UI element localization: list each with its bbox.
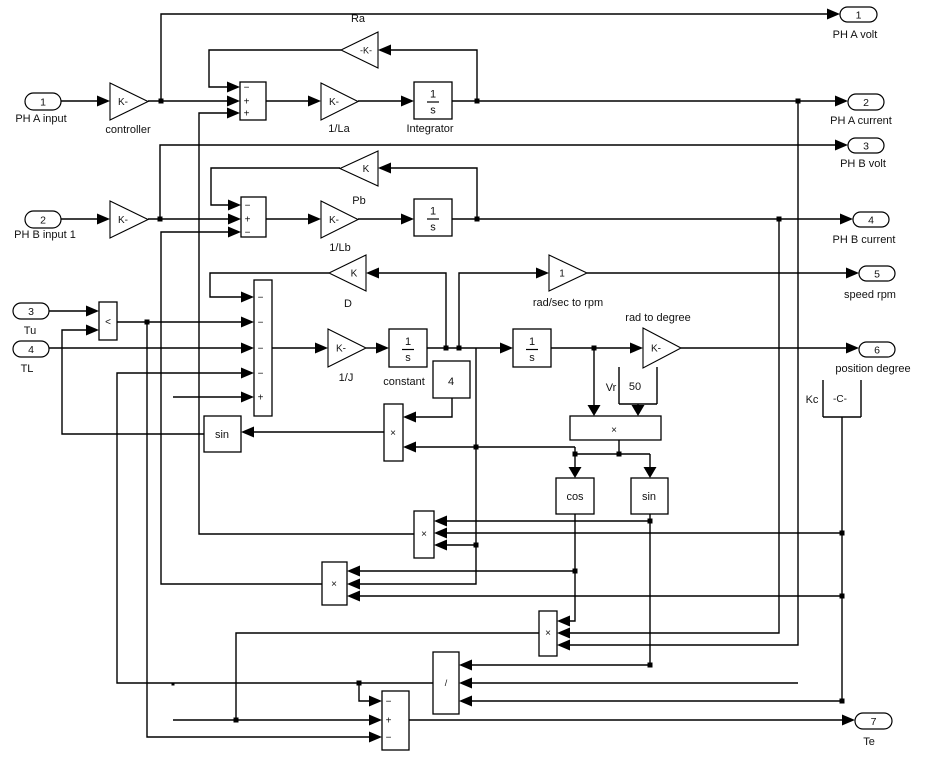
wire PH B volt line xyxy=(160,145,835,219)
svg-text:2: 2 xyxy=(40,214,46,226)
wire divide out to torque sum xyxy=(117,373,433,683)
svg-text:50: 50 xyxy=(629,381,641,393)
svg-text:×: × xyxy=(421,529,427,540)
svg-text:PH B volt: PH B volt xyxy=(840,158,886,170)
svg-text:+: + xyxy=(244,97,250,108)
svg-text:D: D xyxy=(344,298,352,310)
svg-text:Kc: Kc xyxy=(806,394,819,406)
svg-text:rad/sec to rpm: rad/sec to rpm xyxy=(533,297,603,309)
wire lt out to torque sum xyxy=(117,321,241,323)
svg-text:<: < xyxy=(105,317,111,328)
wire PH A volt line xyxy=(161,14,827,101)
wire TL to torque sum xyxy=(49,347,241,349)
svg-text:-C-: -C- xyxy=(833,394,847,405)
svg-text:position degree: position degree xyxy=(835,363,910,375)
trig block sin right xyxy=(631,478,668,514)
input port 1 PH A input xyxy=(25,93,61,110)
integrator A (1/s) xyxy=(414,82,452,119)
wire Kc branch to P1 in2 xyxy=(447,532,842,534)
svg-text:5: 5 xyxy=(874,268,880,280)
svg-text:1: 1 xyxy=(856,9,862,21)
svg-text:K-: K- xyxy=(336,344,346,355)
svg-text:+: + xyxy=(258,393,264,404)
gain 1/Lb (K-) xyxy=(321,201,358,238)
relational operator block (<) xyxy=(99,302,117,340)
svg-text:controller: controller xyxy=(105,124,151,136)
wire const4 to P2 xyxy=(416,398,452,417)
wire sumA to 1/La xyxy=(266,100,308,102)
sum block torque (5 inputs) xyxy=(254,280,272,416)
wire in2 to controllerB xyxy=(61,218,97,220)
gain controller B (K-) xyxy=(110,201,148,238)
wire sin out xyxy=(649,514,651,665)
gain Pb (K) flipped xyxy=(340,151,378,186)
svg-text:K-: K- xyxy=(118,97,128,108)
svg-text:1: 1 xyxy=(559,269,565,280)
wire Vr to product xyxy=(637,404,639,406)
wire D out to torque sum xyxy=(210,273,329,297)
svg-text:sin: sin xyxy=(642,491,656,503)
svg-text:×: × xyxy=(545,628,551,639)
constant block Kc = -C- (open top) xyxy=(822,380,824,417)
svg-text:speed rpm: speed rpm xyxy=(844,289,896,301)
svg-text:constant: constant xyxy=(383,376,425,388)
svg-text:1: 1 xyxy=(40,96,46,108)
svg-text:×: × xyxy=(611,425,617,436)
svg-text:Vr: Vr xyxy=(606,382,617,394)
svg-text:PH A input: PH A input xyxy=(15,113,66,125)
output port 2 PH A current xyxy=(848,94,884,110)
gain rad/sec to rpm (1) xyxy=(549,255,587,291)
svg-text:−: − xyxy=(258,318,264,329)
divide block (flipped) xyxy=(433,652,459,714)
wire lt branch to Te sum input3 xyxy=(147,322,369,737)
wire ia branch down x798 xyxy=(570,101,798,645)
gain controller (K-) xyxy=(110,83,148,120)
svg-text:Integrator: Integrator xyxy=(406,123,453,135)
integrator position (1/s) xyxy=(513,329,551,367)
wire D feedback xyxy=(379,273,446,348)
svg-text:1/La: 1/La xyxy=(328,123,350,135)
wire Kc branch to PL in3 xyxy=(360,595,842,597)
svg-text:+: + xyxy=(386,716,392,727)
wire in3 to lt xyxy=(49,310,86,312)
svg-text:7: 7 xyxy=(871,716,877,728)
svg-text:4: 4 xyxy=(868,214,874,226)
svg-text:1/J: 1/J xyxy=(339,372,354,384)
wire Ra feedback xyxy=(391,50,477,101)
wire Kc out vertical xyxy=(841,417,843,701)
svg-text:×: × xyxy=(390,428,396,439)
trig block sin left (flipped) xyxy=(204,416,241,452)
wire rpm gain to out5 xyxy=(587,272,846,274)
wire ib branch down x779 xyxy=(570,219,779,633)
wire Pb feedback xyxy=(391,168,477,219)
svg-text:−: − xyxy=(245,228,251,239)
output port 4 PH B current xyxy=(853,212,889,227)
wire omega line xyxy=(427,347,500,349)
svg-text:rad to degree: rad to degree xyxy=(625,312,690,324)
svg-text:3: 3 xyxy=(28,306,34,318)
wire P1 out to sumA xyxy=(199,113,414,534)
gain rad to degree (K-) xyxy=(643,328,681,368)
product block P2 (4x, flipped) xyxy=(384,404,403,461)
svg-text:1/Lb: 1/Lb xyxy=(329,242,350,254)
svg-text:Ra: Ra xyxy=(351,13,366,25)
wire Nr-theta to P2 xyxy=(416,446,575,448)
wire sinL out to lt xyxy=(62,330,204,434)
output port 5 speed rpm xyxy=(859,266,895,281)
input port 2 PH B input 1 xyxy=(25,211,61,228)
wire PL out to sumB xyxy=(161,232,322,584)
svg-text:s: s xyxy=(430,105,436,117)
gain D (K) flipped xyxy=(329,255,366,291)
wire controllerB to sumB with node xyxy=(148,218,228,220)
wire Kc branch to divide in3 xyxy=(472,700,842,702)
svg-text:6: 6 xyxy=(874,344,880,356)
wire P3 out down xyxy=(236,633,539,720)
svg-text:+: + xyxy=(244,109,250,120)
svg-text:PH B current: PH B current xyxy=(833,234,896,246)
integrator B (1/s) xyxy=(414,199,452,236)
svg-text:K: K xyxy=(363,164,370,175)
wire split to cos xyxy=(574,454,576,467)
svg-text:−: − xyxy=(244,83,250,94)
wire split to sin xyxy=(649,454,651,467)
svg-text:K-: K- xyxy=(118,215,128,226)
sum block phase B xyxy=(241,197,266,237)
wire theta down to product xyxy=(593,348,595,406)
product block PL (back-emf B, flipped) xyxy=(322,562,347,605)
wire torque sum to 1/J xyxy=(272,347,315,349)
product block P3 (torque, flipped) xyxy=(539,611,557,656)
svg-text:−: − xyxy=(258,369,264,380)
wire ia line to out2 xyxy=(452,100,835,102)
svg-text:PH A current: PH A current xyxy=(830,115,892,127)
svg-text:−: − xyxy=(258,344,264,355)
product block P1 (back-emf A, flipped) xyxy=(414,511,434,558)
svg-text:K-: K- xyxy=(329,215,339,226)
svg-text:1: 1 xyxy=(430,206,436,218)
wire Te sum out to out7 xyxy=(409,719,842,721)
svg-text:1: 1 xyxy=(529,336,535,348)
svg-text:PH A volt: PH A volt xyxy=(833,29,878,41)
wire cos branch to PL in1 xyxy=(360,570,575,572)
wire rad2deg to out6 xyxy=(681,347,846,349)
wire sumB to 1/Lb xyxy=(266,218,308,220)
svg-text:−: − xyxy=(245,201,251,212)
wire sin branch to P1 in1 xyxy=(447,520,650,522)
wire in1 to controller xyxy=(61,100,97,102)
output port 6 position degree xyxy=(859,342,895,357)
integrator omega (1/s) named constant xyxy=(389,329,427,367)
svg-text:s: s xyxy=(430,222,436,234)
svg-text:4: 4 xyxy=(28,344,34,356)
wire omega branch x476 xyxy=(360,348,476,584)
wire omega to rpm gain xyxy=(459,273,536,348)
wire cos out xyxy=(570,514,575,621)
svg-text:2: 2 xyxy=(863,97,869,109)
svg-text:K-: K- xyxy=(329,97,339,108)
constant block 4 xyxy=(433,361,470,398)
input port 3 Tu xyxy=(13,303,49,319)
svg-text:Tu: Tu xyxy=(24,325,36,337)
wire P2 out to sinL xyxy=(254,431,384,433)
wire sin branch to divide in1 xyxy=(472,664,650,666)
svg-text:K: K xyxy=(351,269,358,280)
gain Ra (-K-) flipped xyxy=(341,32,378,68)
svg-text:-K-: -K- xyxy=(360,46,372,56)
svg-text:TL: TL xyxy=(21,363,34,375)
wire wide product out split xyxy=(618,440,620,454)
svg-text:PH B input 1: PH B input 1 xyxy=(14,229,76,241)
svg-text:+: + xyxy=(245,215,251,226)
sum block phase A xyxy=(240,82,266,120)
wire Te sum input2 xyxy=(173,719,369,721)
output port 7 Te xyxy=(855,713,892,729)
wire 1/J to integrator omega xyxy=(366,347,376,349)
svg-text:1: 1 xyxy=(405,336,411,348)
gain 1/J (K-) xyxy=(328,329,366,367)
wire Pb out to sumB xyxy=(211,168,340,205)
wire ib line to out4 xyxy=(452,218,840,220)
wire Ra out to sumA xyxy=(209,50,341,87)
product block wide (Nr*theta) xyxy=(570,416,661,440)
constant block Vr = 50 (open top) xyxy=(618,367,620,404)
svg-text:4: 4 xyxy=(448,376,454,388)
svg-text:−: − xyxy=(258,293,264,304)
output port 3 PH B volt xyxy=(848,138,884,153)
wire 1/Lb to integrator B xyxy=(358,218,401,220)
wire controller to sumA with node xyxy=(148,100,227,102)
svg-text:3: 3 xyxy=(863,140,869,152)
svg-text:−: − xyxy=(386,733,392,744)
output port 1 PH A volt xyxy=(840,7,877,22)
svg-text:K-: K- xyxy=(651,344,661,355)
gain 1/La (K-) xyxy=(321,83,358,120)
svg-text:sin: sin xyxy=(215,429,229,441)
wire 1/La to integrator A xyxy=(358,100,401,102)
svg-text:Te: Te xyxy=(863,736,875,748)
svg-text:Pb: Pb xyxy=(352,195,365,207)
wire branch to P1 in3 xyxy=(446,544,476,546)
svg-text:cos: cos xyxy=(566,491,584,503)
input port 4 TL xyxy=(13,341,49,357)
sum block Te bottom xyxy=(382,691,409,750)
svg-text:−: − xyxy=(386,697,392,708)
wire theta line xyxy=(551,347,630,349)
wire divide in2 dangling xyxy=(472,682,798,684)
svg-text:s: s xyxy=(529,352,535,364)
svg-text:×: × xyxy=(331,579,337,590)
trig block cos xyxy=(556,478,594,514)
svg-text:s: s xyxy=(405,352,411,364)
wire divide branch to Te sum xyxy=(359,683,369,701)
svg-text:1: 1 xyxy=(430,89,436,101)
wire torque sum input5 xyxy=(173,396,241,398)
